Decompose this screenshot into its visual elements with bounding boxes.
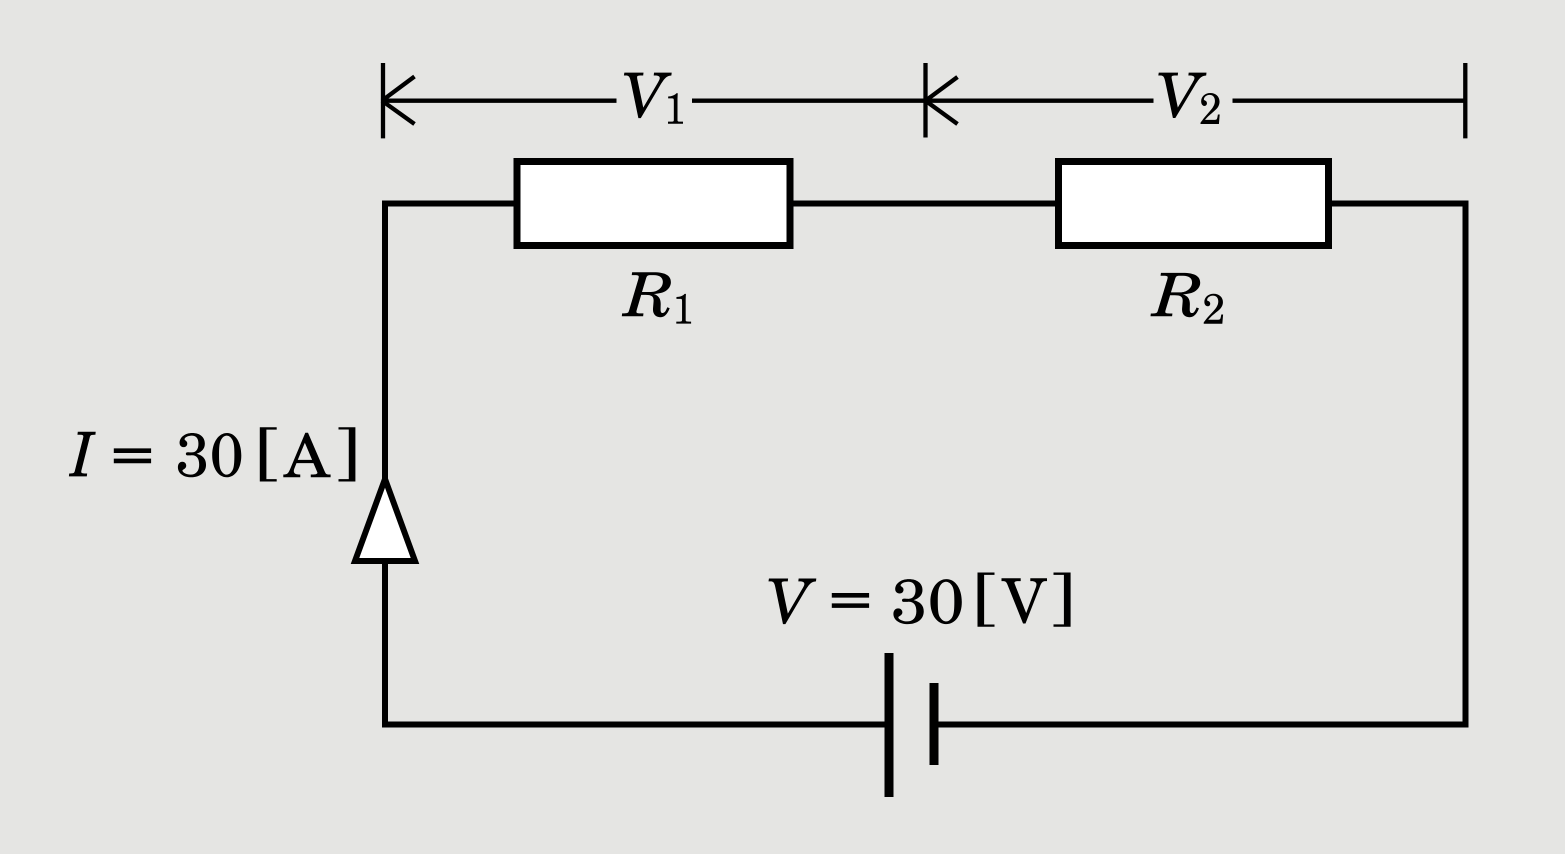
label V value 30 [893, 579, 961, 624]
label V2 subscript 2 [1200, 93, 1219, 124]
label V1 letter V [624, 73, 672, 119]
label I unit letter A [283, 433, 330, 478]
dimension line V1 span right segment [692, 99, 926, 103]
wire right [1463, 201, 1469, 728]
label I value 30 [178, 433, 241, 477]
wire top [382, 201, 1466, 207]
label I unit bracket right [338, 427, 355, 481]
dimension line V2 span right segment [1233, 99, 1466, 103]
wire bottom left segment (to battery positive plate) [382, 722, 889, 728]
battery short plate (negative) [930, 683, 939, 765]
dimension tick right [1463, 63, 1467, 138]
label I unit bracket left [260, 427, 277, 481]
battery long plate (positive) [885, 653, 894, 797]
dimension line V2 span left segment [926, 99, 1154, 103]
dimension arrowhead left (V1 arrow) [382, 77, 415, 125]
dimension line V1 span left segment [382, 99, 617, 103]
label V2 letter V [1158, 73, 1206, 118]
label I (current) letter I [69, 432, 96, 477]
dimension arrowhead middle (V2 arrow) [926, 77, 958, 124]
wire left lower (from current arrow base) [382, 561, 388, 728]
label V equals sign [832, 593, 869, 608]
wire bottom right segment (from battery negative plate) [934, 722, 1469, 728]
label V unit bracket left [977, 572, 994, 626]
label I equals sign [114, 448, 151, 463]
dimension tick middle [923, 63, 927, 138]
label V (battery) letter V [768, 578, 816, 624]
label R1 letter R [622, 272, 671, 317]
wire left upper (down to current arrow tip) [382, 201, 388, 485]
label V unit bracket right [1053, 572, 1070, 626]
resistor R1 [517, 162, 790, 246]
label R1 subscript 1 [676, 294, 691, 324]
label R2 letter R [1150, 273, 1200, 317]
label V unit letter V [1001, 578, 1047, 623]
current arrow (triangle on left wire) [355, 479, 415, 561]
resistor R2 [1059, 162, 1329, 246]
label R2 subscript 2 [1204, 294, 1223, 324]
label V1 subscript 1 [668, 93, 683, 123]
dimension tick left [381, 63, 385, 138]
